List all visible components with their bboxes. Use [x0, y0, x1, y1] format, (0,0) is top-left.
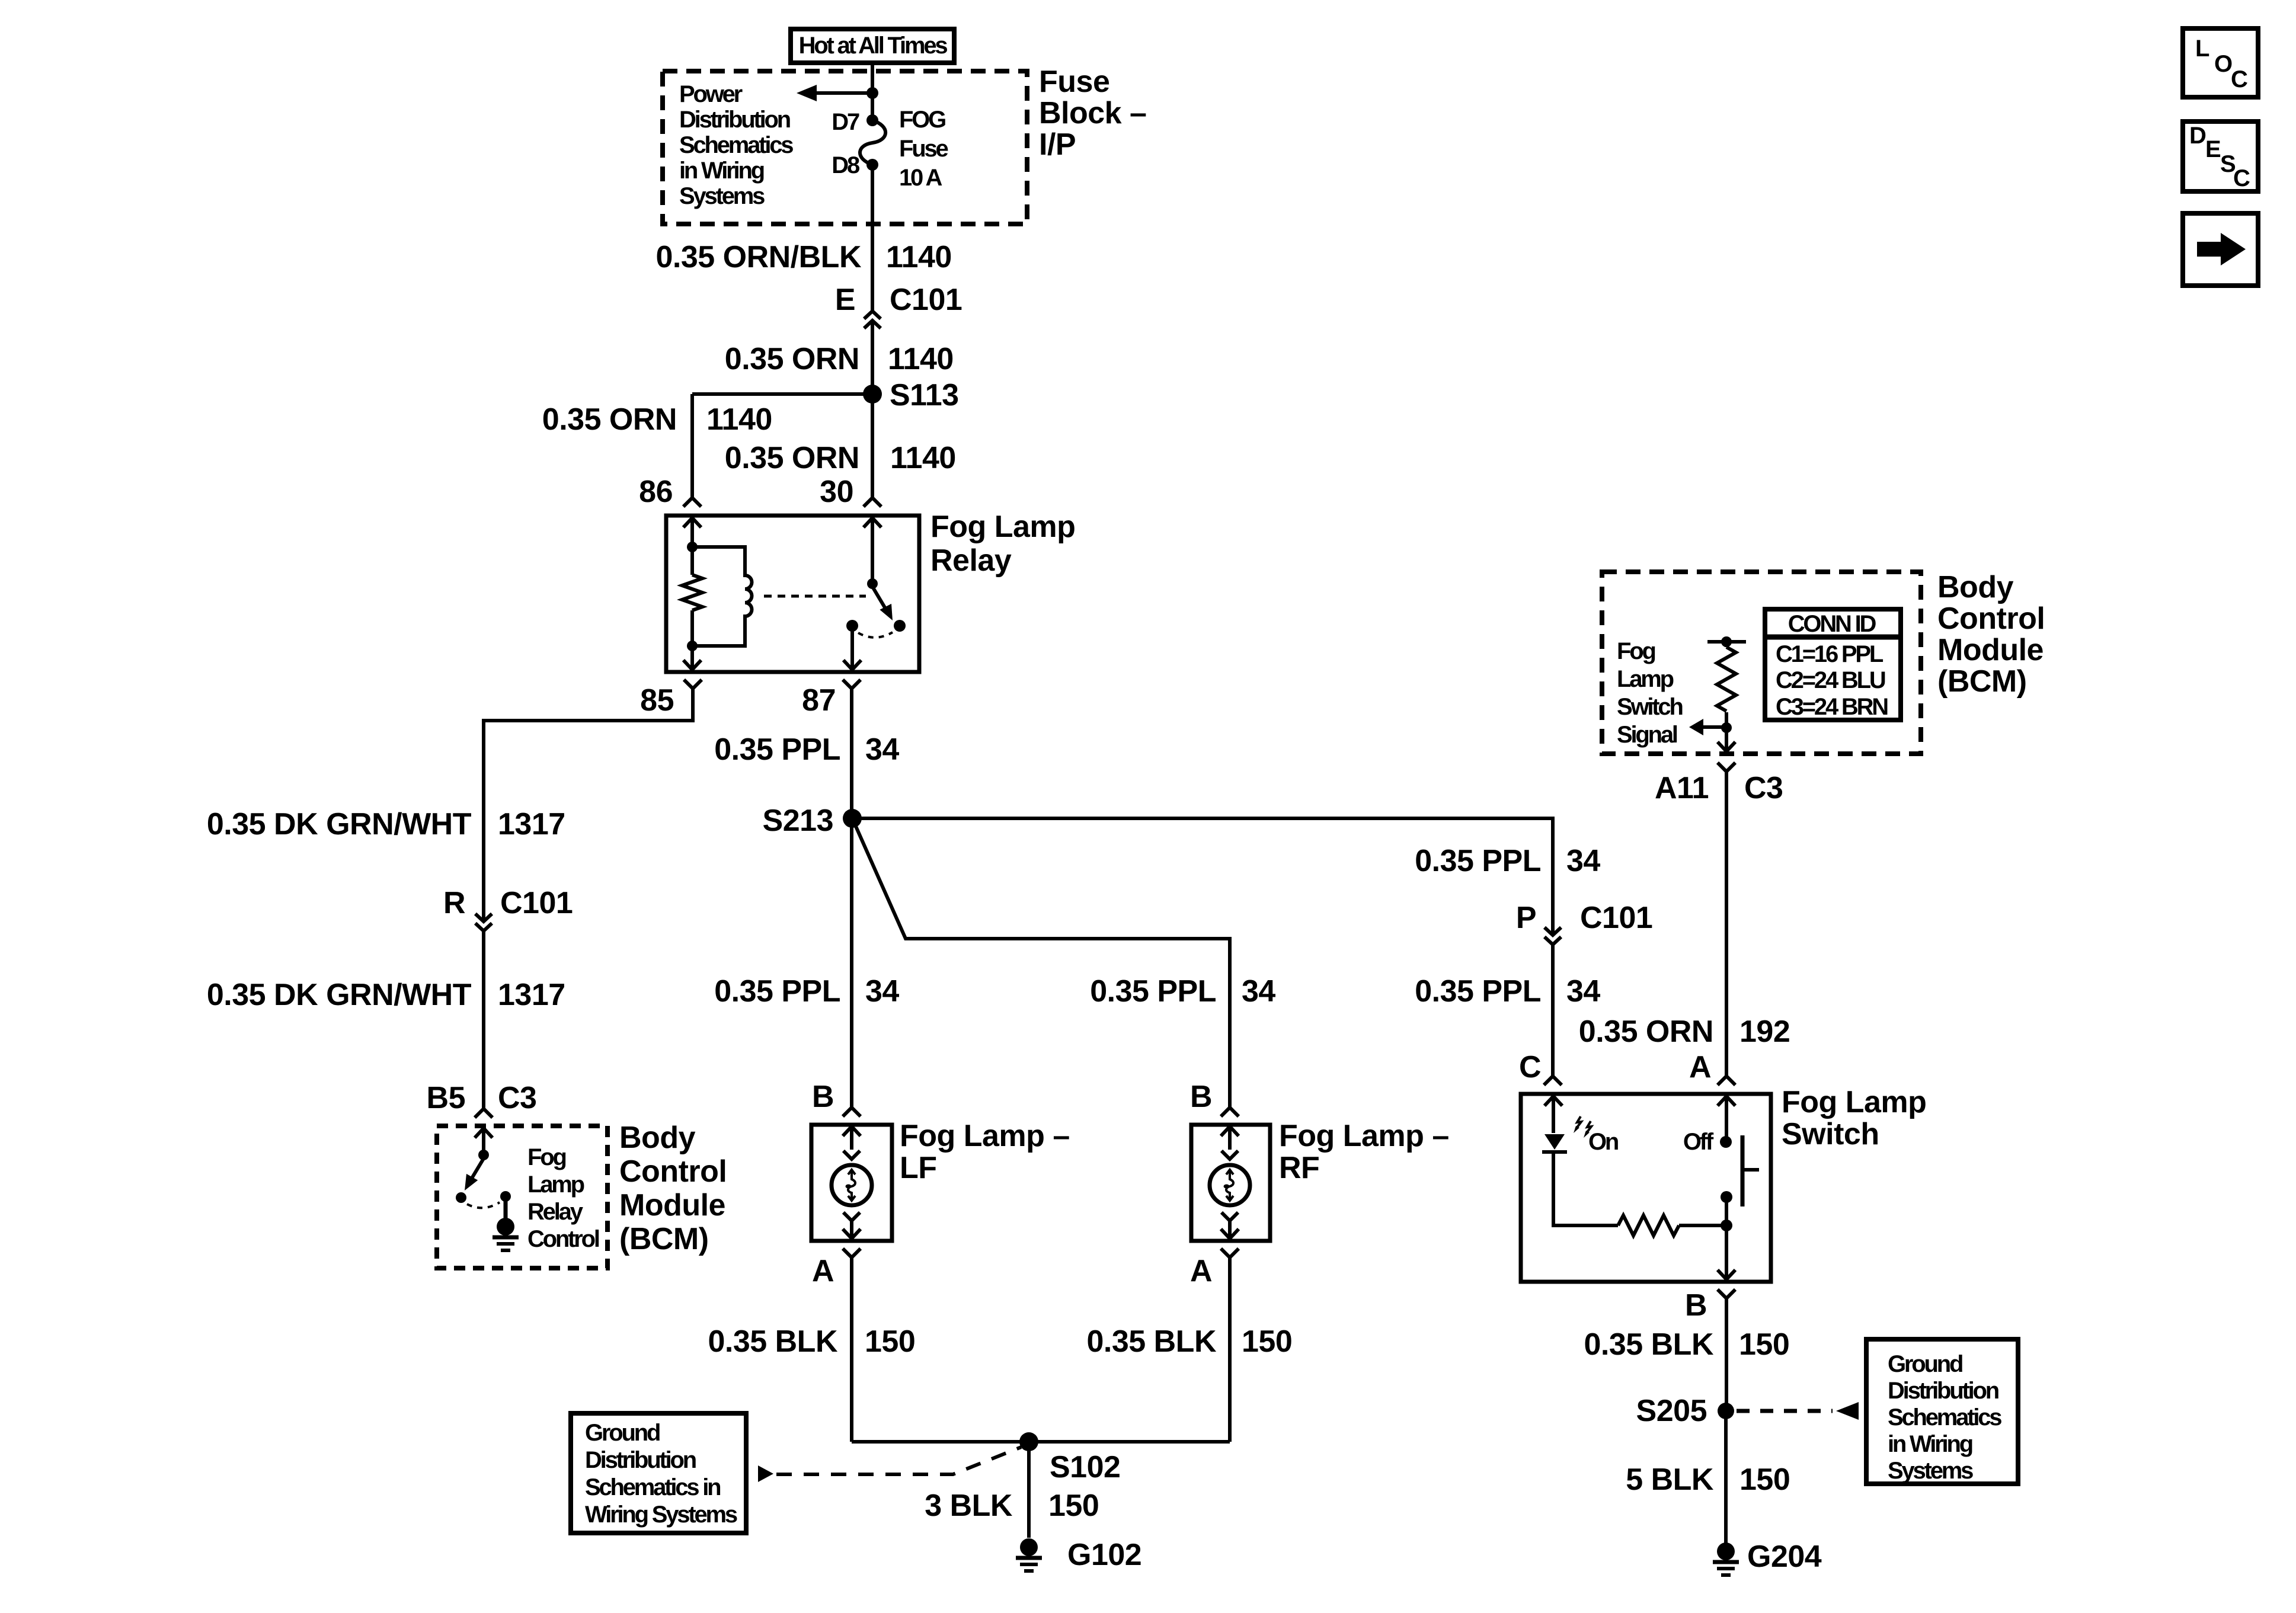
BCM signal arrow to Signal label: [1702, 725, 1726, 729]
BCM ground-side node: [500, 1191, 511, 1202]
BCM driver pivot node: [478, 1150, 489, 1160]
svg-text:30: 30: [820, 475, 853, 509]
svg-text:C101: C101: [890, 283, 962, 317]
pin 30 connector: [864, 498, 881, 507]
relay coil resistor: [690, 547, 694, 575]
svg-text:P: P: [1516, 901, 1536, 935]
svg-text:C101: C101: [500, 886, 573, 920]
svg-text:Fog Lamp: Fog Lamp: [1782, 1085, 1926, 1119]
BCM pin B5 connector: [475, 1109, 493, 1118]
svg-text:Module: Module: [619, 1188, 725, 1222]
relay coil winding: [692, 547, 752, 646]
svg-text:Control: Control: [1937, 601, 2045, 636]
svg-text:Fuse: Fuse: [899, 136, 948, 162]
svg-text:1140: 1140: [886, 240, 952, 274]
BCM dashed box (fog lamp switch signal): [1602, 572, 1921, 754]
relay coil top node: [687, 542, 698, 552]
svg-text:1317: 1317: [498, 807, 565, 841]
connector C101 (inline, pin R): [475, 914, 492, 921]
label box "Hot at All Times": [791, 29, 954, 63]
Fog Lamp LF box: [811, 1125, 892, 1241]
Fog Lamp Switch box: [1521, 1094, 1771, 1282]
BCM pin A11 internal arrow: [1718, 728, 1735, 751]
svg-text:Lamp: Lamp: [1617, 666, 1674, 692]
wire S213 diagonal branch to RF lamp: [852, 818, 1230, 1108]
CONN ID table: [1765, 609, 1901, 720]
relay box Fog Lamp Relay: [666, 516, 919, 672]
svg-text:S205: S205: [1636, 1394, 1707, 1428]
svg-text:0.35 BLK: 0.35 BLK: [1086, 1324, 1216, 1359]
wire C101 to BCM pin B5: [482, 931, 485, 1109]
svg-text:Lamp: Lamp: [527, 1172, 584, 1198]
svg-text:B: B: [1190, 1080, 1212, 1114]
svg-text:34: 34: [1242, 974, 1275, 1009]
svg-text:150: 150: [1242, 1324, 1292, 1359]
svg-text:S113: S113: [890, 378, 959, 412]
svg-text:C101: C101: [1580, 901, 1652, 935]
BCM pull-up resistor: [1725, 642, 1728, 647]
svg-text:D7: D7: [832, 109, 859, 135]
svg-text:0.35 BLK: 0.35 BLK: [1584, 1327, 1713, 1362]
splice S102: [1019, 1432, 1038, 1451]
svg-text:1140: 1140: [888, 342, 954, 376]
switch Off contact: [1720, 1136, 1732, 1148]
svg-text:Module: Module: [1937, 633, 2044, 667]
svg-text:Ground: Ground: [585, 1420, 660, 1446]
svg-text:Distribution: Distribution: [585, 1447, 696, 1473]
svg-text:150: 150: [1048, 1489, 1099, 1523]
svg-text:C1=16 PPL: C1=16 PPL: [1776, 641, 1884, 667]
wire RF A to ground bus: [1228, 1257, 1232, 1442]
connector C101 (inline, pin P): [1544, 927, 1561, 935]
contact to junction wire: [1725, 1197, 1728, 1225]
svg-text:34: 34: [1566, 844, 1600, 878]
relay pin 85 internal arrow: [683, 646, 701, 670]
LF internal lower chevron: [843, 1212, 860, 1221]
fuse FOG 10A (S-curve element): [866, 114, 878, 126]
BCM contact travel dashed arc: [467, 1202, 500, 1208]
relay contact travel dashed arc: [858, 632, 893, 638]
wire S102 to G102: [1027, 1442, 1031, 1538]
svg-text:10 A: 10 A: [899, 165, 942, 191]
wire S213 down to LF lamp: [850, 817, 853, 1108]
svg-text:R: R: [443, 886, 465, 920]
svg-text:Fog: Fog: [527, 1144, 565, 1170]
LED light rays: [1576, 1116, 1581, 1129]
svg-text:150: 150: [865, 1324, 915, 1359]
relay switch contact (N.O.): [894, 620, 906, 632]
wire C101 to switch pin C: [1551, 945, 1555, 1076]
svg-text:in Wiring: in Wiring: [1888, 1431, 1972, 1457]
wire S113 branch to pin 86: [692, 392, 872, 396]
switch pin A connector: [1718, 1076, 1735, 1085]
svg-text:1317: 1317: [498, 978, 565, 1012]
BCM internal ground lead: [504, 1196, 508, 1218]
switch resistor: [1618, 1215, 1679, 1236]
svg-text:150: 150: [1739, 1462, 1790, 1497]
wire fuse output down to C101: [871, 165, 874, 311]
ground G204: [1717, 1542, 1735, 1560]
switch junction node: [1721, 1220, 1732, 1231]
relay actuation dashed link: [764, 595, 866, 598]
svg-text:Distribution: Distribution: [679, 107, 790, 133]
svg-text:0.35 ORN: 0.35 ORN: [725, 342, 859, 376]
svg-text:Fuse: Fuse: [1039, 65, 1109, 99]
svg-text:0.35 ORN: 0.35 ORN: [1579, 1014, 1713, 1049]
svg-text:0.35 ORN/BLK: 0.35 ORN/BLK: [655, 240, 861, 274]
svg-text:LF: LF: [900, 1151, 937, 1185]
wire pin 87 down to S213: [850, 689, 853, 818]
svg-text:CONN ID: CONN ID: [1788, 611, 1876, 637]
svg-text:FOG: FOG: [899, 107, 945, 133]
BCM driver internal arrow: [475, 1128, 493, 1155]
switch pin A internal arrow: [1718, 1096, 1735, 1142]
svg-text:G204: G204: [1747, 1540, 1822, 1574]
svg-text:Relay: Relay: [930, 543, 1012, 578]
svg-text:C3: C3: [1744, 771, 1783, 805]
svg-text:On: On: [1588, 1129, 1618, 1155]
LOC corner box: [2183, 28, 2258, 97]
wire S113 to pin 30: [871, 394, 874, 498]
wire switch B to S205: [1725, 1298, 1728, 1411]
svg-text:Control: Control: [527, 1226, 599, 1252]
svg-text:C2=24 BLU: C2=24 BLU: [1776, 667, 1885, 693]
svg-text:I/P: I/P: [1039, 127, 1076, 162]
svg-text:Fog Lamp –: Fog Lamp –: [1279, 1119, 1449, 1153]
splice S213: [843, 809, 862, 828]
LED to resistor wire: [1553, 1152, 1618, 1225]
RF internal lower chevron: [1221, 1212, 1238, 1221]
pin 85 connector: [684, 680, 702, 689]
relay switch blade: [872, 587, 887, 612]
LF internal top arrow: [843, 1126, 861, 1150]
svg-text:Switch: Switch: [1617, 694, 1682, 720]
relay pin 86 internal arrow: [683, 518, 701, 547]
RF pin B connector: [1221, 1108, 1239, 1116]
svg-text:S213: S213: [763, 804, 833, 838]
svg-text:O: O: [2214, 51, 2232, 77]
svg-text:0.35 PPL: 0.35 PPL: [1415, 974, 1541, 1009]
switch pin C internal arrow: [1544, 1096, 1562, 1133]
svg-text:1140: 1140: [706, 402, 772, 437]
relay pin 87 contact: [846, 620, 858, 632]
wire from Hot at All Times into fuse block: [871, 63, 874, 120]
RF internal top arrow: [1221, 1126, 1239, 1150]
svg-text:Relay: Relay: [527, 1199, 584, 1225]
svg-text:0.35 DK GRN/WHT: 0.35 DK GRN/WHT: [207, 807, 472, 841]
svg-text:(BCM): (BCM): [619, 1222, 709, 1256]
svg-text:Power: Power: [679, 81, 743, 107]
node: power distribution take-off junction: [866, 87, 878, 99]
switch pin B internal arrow: [1718, 1225, 1735, 1279]
svg-text:Wiring Systems: Wiring Systems: [585, 1502, 737, 1528]
svg-text:L: L: [2195, 36, 2209, 62]
svg-text:E: E: [835, 283, 855, 317]
svg-text:Body: Body: [619, 1121, 696, 1155]
svg-text:C: C: [2231, 66, 2247, 92]
svg-text:(BCM): (BCM): [1937, 664, 2027, 699]
svg-text:C3=24 BRN: C3=24 BRN: [1776, 694, 1888, 720]
svg-text:192: 192: [1739, 1014, 1790, 1049]
BCM pin A11 connector: [1718, 763, 1735, 772]
svg-text:Systems: Systems: [679, 183, 765, 209]
pin 86 connector: [683, 498, 701, 507]
svg-text:D: D: [2189, 123, 2206, 149]
indicator LED: [1544, 1134, 1565, 1150]
ground G102: [1020, 1538, 1038, 1556]
svg-text:S102: S102: [1050, 1450, 1120, 1484]
svg-text:Block –: Block –: [1039, 96, 1146, 130]
wire S205 to G204: [1724, 1411, 1728, 1544]
RF pin A connector: [1221, 1249, 1239, 1257]
Fog Lamp RF box: [1191, 1125, 1270, 1241]
svg-text:A11: A11: [1655, 771, 1709, 805]
wire BCM A11 down to switch pin A: [1725, 772, 1728, 1076]
svg-text:Schematics in: Schematics in: [585, 1474, 720, 1500]
RF internal socket chevron: [1221, 1151, 1238, 1159]
svg-text:A: A: [1689, 1050, 1711, 1084]
relay pin 87 internal arrow: [843, 626, 861, 670]
Ground Distribution box (left): [571, 1413, 746, 1533]
ground bus LF-S102-RF: [852, 1440, 1230, 1444]
svg-text:87: 87: [802, 683, 836, 718]
pin 87 connector: [843, 680, 861, 689]
svg-text:G102: G102: [1067, 1538, 1141, 1572]
svg-text:B5: B5: [427, 1081, 465, 1115]
svg-text:0.35 ORN: 0.35 ORN: [542, 402, 677, 437]
Fuse Block I/P dashed box: [663, 71, 1027, 224]
DESC corner box: [2183, 121, 2258, 191]
wire S213 to fog lamp switch (right run): [852, 818, 1553, 935]
relay coil bottom node: [687, 641, 698, 651]
svg-text:Fog Lamp: Fog Lamp: [930, 510, 1075, 544]
svg-text:Schematics: Schematics: [1888, 1404, 2001, 1430]
svg-text:85: 85: [640, 683, 674, 718]
BCM internal ground: [497, 1218, 514, 1236]
arrow to power distribution schematics: [817, 91, 872, 95]
splice S113: [863, 385, 882, 404]
svg-text:5 BLK: 5 BLK: [1626, 1462, 1714, 1497]
RF internal bottom arrow: [1221, 1228, 1239, 1238]
BCM driver contact: [456, 1192, 466, 1203]
relay pin 30 internal arrow and switch pivot: [864, 518, 881, 584]
svg-text:Body: Body: [1937, 570, 2014, 604]
svg-text:0.35 PPL: 0.35 PPL: [1090, 974, 1216, 1009]
switch lower contact: [1721, 1191, 1732, 1203]
svg-text:D8: D8: [832, 152, 860, 178]
BCM signal node: [1721, 722, 1732, 733]
svg-text:0.35 DK GRN/WHT: 0.35 DK GRN/WHT: [207, 978, 472, 1012]
svg-text:C: C: [2233, 165, 2250, 191]
svg-text:Fog Lamp –: Fog Lamp –: [900, 1119, 1070, 1153]
svg-text:in Wiring: in Wiring: [679, 158, 764, 184]
svg-text:Switch: Switch: [1782, 1117, 1879, 1151]
RF bulb: [1210, 1165, 1250, 1205]
svg-text:0.35 PPL: 0.35 PPL: [714, 732, 840, 767]
svg-text:A: A: [812, 1254, 834, 1288]
svg-text:34: 34: [1566, 974, 1600, 1009]
switch pin C connector: [1544, 1076, 1562, 1085]
BCM pull-up top rail: [1707, 640, 1746, 644]
resistor to junction wire: [1679, 1224, 1726, 1227]
svg-text:Control: Control: [619, 1154, 727, 1189]
svg-text:B: B: [1685, 1288, 1707, 1323]
svg-text:Off: Off: [1683, 1129, 1714, 1155]
connector C101 (inline, pin E): [864, 311, 881, 319]
svg-text:0.35 ORN: 0.35 ORN: [725, 441, 859, 475]
splice S205: [1718, 1403, 1734, 1419]
Ground Distribution box (right): [1866, 1339, 2018, 1484]
S102 dashed callout line: [758, 1465, 773, 1482]
forward arrow corner box: [2183, 213, 2258, 286]
svg-text:Signal: Signal: [1617, 722, 1677, 748]
svg-text:Ground: Ground: [1888, 1351, 1962, 1377]
S205 dashed callout line: [1737, 1409, 1833, 1413]
svg-text:Fog: Fog: [1617, 638, 1655, 664]
svg-text:1140: 1140: [890, 441, 956, 475]
svg-text:Hot at All Times: Hot at All Times: [799, 33, 948, 59]
svg-text:Distribution: Distribution: [1888, 1378, 1998, 1404]
svg-text:E: E: [2205, 136, 2221, 162]
svg-text:150: 150: [1739, 1327, 1789, 1362]
svg-text:0.35 PPL: 0.35 PPL: [714, 974, 840, 1009]
wire LF A to ground bus: [850, 1257, 853, 1442]
svg-text:34: 34: [865, 732, 899, 767]
svg-text:A: A: [1190, 1254, 1212, 1288]
LF pin A connector: [843, 1249, 861, 1257]
BCM driver blade: [471, 1158, 484, 1179]
svg-text:Schematics: Schematics: [679, 132, 793, 158]
LF internal bottom arrow: [843, 1228, 861, 1238]
LF pin B connector: [843, 1108, 861, 1116]
wire C101 to S113: [871, 321, 874, 394]
svg-text:3 BLK: 3 BLK: [925, 1489, 1013, 1523]
LF internal socket chevron: [843, 1151, 860, 1159]
svg-text:B: B: [812, 1080, 834, 1114]
svg-text:34: 34: [865, 974, 899, 1009]
wire pin 85 to BCM (left drop): [484, 689, 693, 921]
svg-text:RF: RF: [1279, 1151, 1319, 1185]
switch pin B connector: [1718, 1289, 1735, 1298]
push button plunger: [1741, 1135, 1745, 1206]
svg-text:0.35 PPL: 0.35 PPL: [1415, 844, 1541, 878]
svg-text:Systems: Systems: [1888, 1458, 1973, 1484]
LF bulb: [832, 1165, 872, 1205]
svg-text:86: 86: [639, 475, 673, 509]
svg-text:C3: C3: [498, 1081, 536, 1115]
svg-text:C: C: [1519, 1050, 1541, 1084]
svg-text:0.35 BLK: 0.35 BLK: [708, 1324, 837, 1359]
BCM dashed box (fog lamp relay control): [437, 1126, 607, 1268]
